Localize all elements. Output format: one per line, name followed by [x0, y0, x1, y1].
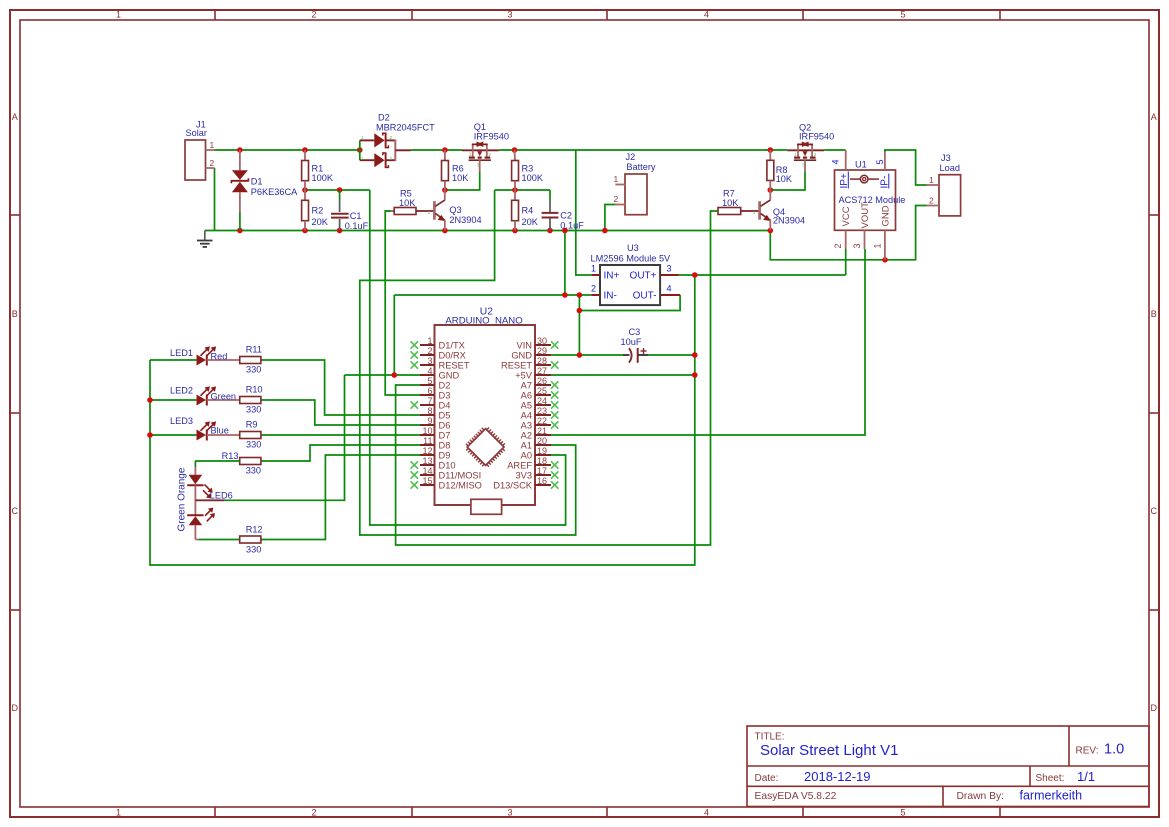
svg-text:R13: R13	[222, 451, 239, 461]
svg-text:100K: 100K	[312, 173, 334, 183]
U2 left pin 9 D6	[420, 416, 450, 431]
svg-text:D3: D3	[439, 391, 451, 401]
LED6 dual Green Orange	[176, 467, 239, 540]
svg-text:R4: R4	[522, 206, 534, 216]
wire 5V riser to LED bus	[150, 275, 695, 565]
svg-text:5: 5	[427, 376, 432, 386]
svg-text:IRF9540: IRF9540	[799, 132, 834, 142]
svg-text:IN+: IN+	[604, 271, 620, 282]
svg-text:15: 15	[422, 476, 432, 486]
LED1 Red	[170, 346, 240, 365]
resistor R1 100K	[302, 150, 334, 190]
wire D3 pin6 to R5	[385, 211, 420, 395]
svg-text:10K: 10K	[776, 174, 793, 184]
svg-text:330: 330	[246, 405, 261, 415]
wire LED bus left x150	[150, 360, 196, 435]
junction dots U1 GND, LED bus	[147, 257, 888, 438]
svg-text:OUT-: OUT-	[633, 291, 657, 302]
junction dots GND rail	[237, 228, 773, 234]
svg-text:VIN: VIN	[517, 341, 533, 351]
svg-text:D8: D8	[439, 441, 451, 451]
svg-text:330: 330	[246, 365, 261, 375]
svg-text:D: D	[11, 703, 18, 713]
transistor Q1 IRF9540	[462, 122, 509, 172]
U2 right pin 19 A0	[521, 446, 551, 461]
wire IN- GND line y295	[394, 294, 591, 296]
wire J2 pin2 to GND rail	[605, 205, 616, 231]
wire GND to Arduino pin4	[345, 295, 421, 375]
svg-text:1: 1	[873, 243, 883, 248]
svg-text:Solar: Solar	[186, 128, 207, 138]
svg-text:A2: A2	[521, 431, 532, 441]
resistor R9 330	[240, 420, 262, 450]
wire R13 to D8	[261, 445, 420, 461]
svg-text:22: 22	[537, 416, 547, 426]
svg-text:3: 3	[667, 264, 672, 274]
wire D2 pin5 to R7	[396, 211, 718, 545]
wire solar divider node y190	[305, 189, 370, 191]
resistor R12 330	[240, 525, 263, 555]
svg-text:Date:: Date:	[755, 773, 779, 784]
svg-text:D13/SCK: D13/SCK	[493, 481, 533, 491]
svg-text:ACS712 Module: ACS712 Module	[839, 195, 906, 205]
U2 right pin 20 A1	[521, 436, 551, 451]
svg-text:16: 16	[537, 476, 547, 486]
svg-text:U1: U1	[855, 160, 867, 170]
resistor R6 10K	[442, 150, 470, 190]
transistor Q4 2N3904	[753, 190, 805, 231]
wire R13 left to LED6	[194, 461, 196, 467]
svg-text:0.1uF: 0.1uF	[560, 221, 584, 231]
svg-text:2: 2	[833, 243, 843, 248]
svg-text:20K: 20K	[522, 217, 539, 227]
module U3 LM2596 Module 5V	[591, 243, 681, 305]
svg-text:A0: A0	[521, 451, 532, 461]
svg-text:R2: R2	[312, 206, 324, 216]
svg-text:R6: R6	[452, 164, 464, 174]
svg-text:330: 330	[246, 440, 261, 450]
svg-text:2N3904: 2N3904	[773, 215, 805, 225]
svg-text:D11/MOSI: D11/MOSI	[439, 471, 482, 481]
svg-text:Battery: Battery	[626, 162, 656, 172]
svg-text:Q3: Q3	[449, 205, 461, 215]
svg-text:4: 4	[667, 284, 672, 294]
svg-text:5: 5	[900, 10, 905, 20]
svg-text:4: 4	[704, 10, 709, 20]
svg-text:1: 1	[929, 175, 934, 185]
U2 right pin 21 A2	[521, 426, 551, 441]
wire LED2 R10 to D6	[261, 400, 420, 425]
U2 right pin 29 GND	[511, 346, 551, 361]
svg-text:10K: 10K	[399, 198, 416, 208]
svg-text:R5: R5	[400, 189, 412, 199]
capacitor C3 10uF polarized	[621, 327, 649, 363]
svg-text:D7: D7	[439, 431, 451, 441]
svg-text:29: 29	[537, 346, 547, 356]
U2 left pin 6 D3	[420, 386, 450, 401]
svg-text:B: B	[1151, 309, 1157, 319]
U2 left pin 11 D8	[420, 436, 450, 451]
wire battery divider node y190	[495, 189, 550, 191]
svg-text:3: 3	[852, 243, 862, 248]
svg-text:LED3: LED3	[170, 416, 193, 426]
svg-text:D2: D2	[378, 113, 390, 123]
svg-text:4: 4	[831, 159, 841, 164]
U2 left pin 15 D12/MISO	[411, 476, 482, 491]
junction dots 5V GND C3	[392, 352, 698, 378]
U2 left pin 10 D7	[420, 426, 450, 441]
svg-text:3: 3	[427, 356, 432, 366]
resistor R13 330	[195, 451, 261, 476]
svg-text:LED1: LED1	[170, 348, 193, 358]
svg-text:10uF: 10uF	[621, 337, 642, 347]
svg-text:4: 4	[704, 808, 709, 818]
U2 right pin 22 A3	[521, 416, 559, 431]
resistor R4 20K	[512, 190, 539, 231]
svg-text:C2: C2	[560, 211, 572, 221]
svg-text:A1: A1	[521, 441, 532, 451]
connector J3 Load	[927, 153, 961, 216]
U2 left pin 14 D11/MOSI	[411, 466, 482, 481]
svg-text:2: 2	[614, 194, 619, 204]
svg-text:D0/RX: D0/RX	[439, 351, 466, 361]
svg-text:20K: 20K	[312, 217, 329, 227]
svg-text:VCC: VCC	[841, 206, 852, 226]
wire GND riser IN- OUT- C3	[578, 295, 580, 355]
U2 right pin 18 AREF	[507, 456, 558, 471]
svg-text:2: 2	[591, 284, 596, 294]
resistor R3 100K	[512, 150, 544, 190]
svg-text:C: C	[11, 506, 18, 516]
U2 left pin 4 GND	[420, 366, 459, 381]
wire Q1 gate net	[445, 171, 480, 190]
svg-text:Green: Green	[211, 392, 237, 402]
wire LED1 R11 to D5	[261, 360, 420, 415]
svg-text:2: 2	[311, 808, 316, 818]
transistor Q3 2N3904	[428, 190, 482, 231]
title block	[747, 726, 1149, 807]
wire GND rail y230.5	[205, 230, 771, 232]
svg-text:12: 12	[422, 446, 432, 456]
U2 left pin 8 D5	[420, 406, 450, 421]
svg-text:D6: D6	[439, 421, 451, 431]
wire GND rail to IN- riser	[564, 231, 566, 296]
resistor R8 10K	[767, 150, 793, 190]
svg-text:2: 2	[210, 158, 215, 168]
svg-text:R11: R11	[246, 345, 262, 355]
resistor R5 10K	[385, 189, 434, 215]
svg-text:D2: D2	[439, 381, 451, 391]
svg-text:R9: R9	[246, 420, 258, 430]
svg-text:R3: R3	[522, 164, 534, 174]
capacitor C2 0.1uF	[542, 190, 585, 231]
dual schottky diode D2 MBR2045FCT	[360, 113, 435, 168]
svg-text:P6KE36CA: P6KE36CA	[251, 187, 298, 197]
LED2 Green	[170, 386, 240, 406]
svg-text:D: D	[1150, 703, 1157, 713]
ground symbol	[197, 231, 213, 247]
svg-text:IRF9540: IRF9540	[474, 131, 509, 141]
svg-text:farmerkeith: farmerkeith	[1020, 789, 1083, 803]
U2 left pin 1 D1/TX	[411, 336, 465, 351]
svg-text:5: 5	[875, 159, 885, 164]
wire GND rail to U1/J3	[770, 206, 926, 260]
svg-text:4: 4	[427, 366, 432, 376]
svg-text:1: 1	[614, 174, 619, 184]
svg-text:3: 3	[507, 10, 512, 20]
svg-text:R7: R7	[723, 189, 735, 199]
svg-text:Load: Load	[940, 163, 960, 173]
svg-text:D10: D10	[439, 461, 456, 471]
wire GND to LED6 mid	[230, 375, 345, 500]
transistor Q2 IRF9540	[787, 122, 834, 172]
wire R12 to D9	[261, 455, 420, 540]
svg-text:AREF: AREF	[507, 461, 532, 471]
wire +bus to U3 IN+	[576, 150, 592, 275]
U2 right pin 16 D13/SCK	[493, 476, 558, 491]
U2 left pin 3 RESET	[411, 356, 470, 371]
junction dots top rail	[237, 147, 773, 153]
svg-text:3: 3	[507, 808, 512, 818]
svg-text:330: 330	[246, 545, 261, 555]
svg-text:D5: D5	[439, 411, 451, 421]
U2 left pin 13 D10	[411, 456, 456, 471]
wire +5V pin27 line	[551, 374, 695, 376]
svg-text:14: 14	[422, 466, 432, 476]
svg-text:9: 9	[427, 416, 432, 426]
svg-text:+5V: +5V	[515, 371, 533, 381]
U2 left pin 12 D9	[420, 446, 450, 461]
svg-text:LED2: LED2	[170, 386, 193, 396]
wire A2 pin21 to U1 VOUT	[551, 249, 865, 435]
U2 right pin 23 A4	[521, 406, 559, 421]
mcu U2 Arduino Nano	[435, 307, 536, 506]
wire GND pin29 to C3	[551, 354, 695, 356]
svg-text:GND: GND	[511, 351, 532, 361]
svg-text:17: 17	[537, 466, 547, 476]
svg-text:A7: A7	[521, 381, 532, 391]
svg-text:LED6: LED6	[210, 491, 233, 501]
svg-text:8: 8	[427, 406, 432, 416]
svg-text:25: 25	[537, 386, 547, 396]
svg-text:MBR2045FCT: MBR2045FCT	[376, 123, 435, 133]
U2 right pin 27 +5V	[515, 366, 551, 381]
svg-text:A: A	[1151, 112, 1157, 122]
svg-text:23: 23	[537, 406, 547, 416]
svg-text:330: 330	[246, 466, 261, 476]
svg-text:Red: Red	[211, 352, 228, 362]
svg-text:J3: J3	[941, 153, 951, 163]
svg-text:D1/TX: D1/TX	[439, 341, 465, 351]
svg-text:Green Orange: Green Orange	[176, 467, 187, 531]
wire J1 pin2 down to GND rail	[214, 168, 216, 231]
svg-text:10: 10	[422, 426, 432, 436]
capacitor C1 0.1uF	[331, 190, 369, 231]
svg-text:10K: 10K	[722, 198, 739, 208]
svg-text:3V3: 3V3	[515, 471, 532, 481]
wire top +bus rail y150	[215, 149, 846, 151]
svg-text:Drawn By:: Drawn By:	[957, 791, 1005, 802]
svg-text:19: 19	[537, 446, 547, 456]
TVS diode D1 P6KE36CA	[231, 150, 298, 231]
wire Q2 gate net	[770, 171, 805, 190]
svg-text:R10: R10	[246, 385, 263, 395]
resistor R2 20K	[302, 190, 329, 231]
U2 right pin 17 3V3	[515, 466, 558, 481]
svg-text:B: B	[12, 309, 18, 319]
svg-text:Solar Street Light V1: Solar Street Light V1	[760, 742, 898, 759]
svg-text:30: 30	[537, 336, 547, 346]
svg-text:1: 1	[210, 140, 215, 150]
U2 left pin 7 D4	[411, 396, 451, 411]
U2 right pin 24 A5	[521, 396, 559, 411]
U2 right pin 26 A7	[521, 376, 559, 391]
svg-text:2N3904: 2N3904	[449, 215, 481, 225]
wire U3 OUT- loop	[579, 295, 680, 311]
svg-text:C: C	[1150, 506, 1157, 516]
svg-text:IN-: IN-	[604, 291, 617, 302]
wire solar divider to A0 pin19	[370, 190, 566, 525]
svg-text:D9: D9	[439, 451, 451, 461]
LED3 Blue	[170, 416, 240, 441]
wire LED3 R9 to D7	[261, 434, 420, 436]
svg-text:GND: GND	[439, 371, 460, 381]
svg-text:A: A	[12, 112, 18, 122]
svg-text:1: 1	[116, 808, 121, 818]
svg-text:R1: R1	[312, 164, 324, 174]
svg-text:13: 13	[422, 456, 432, 466]
U2 left pin 2 D0/RX	[411, 346, 466, 361]
svg-text:18: 18	[537, 456, 547, 466]
U2 USB connector symbol	[435, 499, 502, 514]
connector J2 Battery	[614, 152, 656, 215]
svg-text:A3: A3	[521, 421, 532, 431]
svg-text:5: 5	[900, 808, 905, 818]
svg-text:11: 11	[423, 436, 432, 446]
svg-text:D4: D4	[439, 401, 451, 411]
svg-text:21: 21	[537, 426, 547, 436]
U2 right pin 30 VIN	[517, 336, 559, 351]
svg-text:A5: A5	[521, 401, 532, 411]
svg-text:100K: 100K	[522, 173, 544, 183]
svg-text:1.0: 1.0	[1104, 742, 1124, 758]
U2 right pin 28 RESET	[501, 356, 558, 371]
svg-text:28: 28	[537, 356, 547, 366]
svg-text:7: 7	[427, 396, 432, 406]
wire U3 OUT+ 5V to U1 VCC	[679, 249, 846, 275]
svg-text:TITLE:: TITLE:	[755, 732, 785, 743]
connector J1 Solar	[185, 120, 215, 181]
resistor R7 10K	[718, 189, 759, 215]
resistor R10 330	[240, 385, 263, 415]
svg-text:2: 2	[311, 10, 316, 20]
svg-text:20: 20	[537, 436, 547, 446]
svg-text:0.1uF: 0.1uF	[345, 221, 369, 231]
U2 QFP chip symbol	[463, 424, 509, 470]
svg-text:2018-12-19: 2018-12-19	[804, 769, 871, 784]
svg-text:1/1: 1/1	[1077, 769, 1095, 784]
svg-text:1: 1	[116, 10, 121, 20]
svg-text:GND: GND	[881, 205, 892, 226]
svg-text:D12/MISO: D12/MISO	[439, 481, 482, 491]
U2 right pin 25 A6	[521, 386, 559, 401]
junction dots U3 area	[562, 272, 697, 313]
svg-text:A6: A6	[521, 391, 532, 401]
svg-text:C3: C3	[629, 327, 641, 337]
svg-text:RESET: RESET	[439, 361, 470, 371]
svg-text:OUT+: OUT+	[630, 271, 657, 282]
svg-text:REV:: REV:	[1076, 746, 1099, 757]
svg-text:2: 2	[427, 346, 432, 356]
svg-text:1: 1	[427, 336, 432, 346]
svg-text:2: 2	[929, 196, 934, 206]
U2 left pin 5 D2	[420, 376, 450, 391]
svg-text:26: 26	[537, 376, 547, 386]
svg-text:RESET: RESET	[501, 361, 532, 371]
svg-text:D1: D1	[251, 176, 263, 186]
svg-text:VOUT: VOUT	[860, 202, 871, 229]
svg-text:27: 27	[537, 366, 547, 376]
wire battery divider to A1 pin20	[360, 190, 576, 535]
svg-text:EasyEDA V5.8.22: EasyEDA V5.8.22	[755, 791, 837, 802]
svg-text:LM2596 Module 5V: LM2596 Module 5V	[591, 254, 672, 264]
resistor R11 330	[240, 345, 262, 375]
svg-text:J2: J2	[626, 152, 636, 162]
svg-text:1: 1	[591, 264, 596, 274]
svg-text:10K: 10K	[452, 173, 469, 183]
svg-text:6: 6	[427, 386, 432, 396]
svg-text:U3: U3	[627, 243, 639, 253]
module U1 ACS712	[831, 150, 906, 260]
svg-text:24: 24	[537, 396, 547, 406]
junction dots divider y190	[302, 187, 773, 193]
svg-text:Blue: Blue	[211, 426, 229, 436]
svg-text:Sheet:: Sheet:	[1036, 773, 1065, 784]
svg-text:A4: A4	[521, 411, 532, 421]
wire IP- to J3 pin1	[885, 150, 927, 185]
svg-text:R12: R12	[246, 525, 263, 535]
svg-text:C1: C1	[350, 211, 362, 221]
